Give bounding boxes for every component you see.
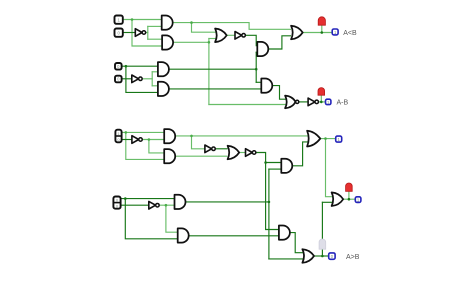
wire AND G12 output to AND G8 input 2 — [169, 88, 261, 90]
OR gate G4 — [215, 29, 227, 43]
label A>B — [346, 254, 360, 261]
wire to NOR G9 input 2 — [209, 104, 288, 106]
input pin A1 value 1 — [115, 16, 123, 24]
junction OR G20 output — [324, 137, 327, 140]
wire LED L3 stem — [348, 191, 350, 199]
wire NOT G13 vertical — [151, 72, 153, 86]
OR gate G7 — [291, 26, 303, 40]
OR gate G22 — [332, 192, 344, 206]
wire NOT G24 output to AND G23 input 2 — [160, 204, 175, 206]
wire LED L2 stem — [320, 95, 322, 102]
wire pin A1b to AND G15 input 1 — [122, 131, 164, 133]
wire branch to AND G25 input 2 — [125, 199, 177, 239]
AND gate G16 — [164, 149, 175, 163]
AND gate G11 — [158, 62, 169, 76]
wire NOT G17 output to OR G18 input 1 — [215, 148, 227, 150]
wire net A1 to AND G2 input 1 — [123, 19, 161, 21]
AND gate G21 — [281, 159, 292, 173]
wire AND G11 output — [169, 68, 256, 70]
wire branch to OR G4 input 1 — [192, 23, 218, 33]
junction net A1 — [131, 18, 134, 21]
svg-text:A-B: A-B — [337, 100, 349, 107]
OR gate G20 — [307, 131, 320, 147]
OR gate G18 — [228, 146, 240, 160]
junction A>B net — [321, 255, 324, 258]
inverter G1 — [135, 29, 145, 37]
junction A<B net — [321, 31, 324, 34]
wire NOT G14 output to AND G15 input 2 — [143, 139, 164, 141]
wire to AND G11 input 2 — [152, 71, 158, 73]
AND gate G3 — [162, 35, 173, 49]
wire pin B1 to NOT G1 — [123, 32, 135, 34]
wire OR G22 output to pin O4 — [343, 198, 355, 200]
AND gate G25 — [178, 228, 189, 242]
wire NOT G19 output down to AND G26 input 1 — [256, 153, 279, 230]
wire branch to AND G16 input 2 — [126, 132, 164, 159]
wire AND G26 output to OR G27 input 1 — [290, 233, 303, 253]
AND gate G6 — [257, 42, 268, 56]
wire to AND G12 input 1 — [152, 85, 158, 87]
wire to AND G3 input 1 — [148, 38, 162, 40]
wire AND G21 output to OR G20 input 2 — [292, 142, 309, 166]
wire OR G27 output to pin A>B — [314, 255, 328, 257]
wire LED L1 stem — [321, 25, 323, 33]
label A-B — [337, 100, 349, 107]
svg-text:A>B: A>B — [346, 254, 360, 261]
wire AND G15 output to OR G20 input 1 — [175, 135, 309, 137]
wire pin B0b to NOT G24 — [121, 204, 148, 206]
wire OR G7 output to pin A<B — [303, 32, 332, 34]
inverter G24 — [149, 201, 159, 209]
wire NOT G10 output to pin A-B — [319, 101, 325, 103]
LED L1 on — [318, 17, 325, 25]
wire NOR G9 to NOT G10 — [299, 101, 309, 103]
LED L4 off — [319, 239, 326, 249]
wire NOT G1 output vertical — [147, 26, 149, 39]
junction A-B net — [320, 101, 323, 104]
wire net A1 branch to AND G3 input 2 — [132, 20, 162, 47]
wire NOT G13 output stub — [143, 78, 153, 80]
wire vertical net G3out — [208, 39, 210, 105]
inverter G17 — [205, 145, 215, 153]
wire AND G23 output — [185, 201, 269, 203]
wire branch to AND G21 input 1 — [266, 162, 282, 164]
wire AND G8 output to NOR G9 input 1 — [272, 86, 287, 100]
wire OR G4 to NOT G5 — [226, 34, 235, 36]
wire to AND G8 input 1 — [256, 81, 261, 83]
output pin A>B — [329, 253, 335, 259]
junction pin A0 net — [125, 65, 128, 68]
junction V1 to G21 — [264, 161, 267, 164]
wire vertical G23out — [268, 169, 270, 259]
junction pin A1b net — [125, 131, 128, 134]
wire OR G20 output to pin O3 — [320, 138, 335, 140]
inverter G5 — [235, 32, 245, 40]
AND gate G8 — [261, 79, 272, 93]
OR gate G27 — [302, 249, 314, 263]
label A<B — [343, 30, 357, 37]
LED L3 on — [346, 183, 353, 191]
AND gate G15 — [164, 129, 175, 143]
wire branch to NOT G17 — [192, 136, 205, 149]
input pin B0 value 0 — [115, 76, 122, 83]
wire to OR G4 input 2 — [209, 38, 217, 40]
junction pin A0b net — [124, 197, 127, 200]
inverter G19 — [246, 149, 256, 157]
wire AND G6 output to OR G7 input 2 — [268, 36, 290, 49]
inverter G13 — [132, 75, 142, 83]
wire branch to AND G12 input 2 — [126, 66, 158, 92]
wire to AND G2 input 2 — [148, 25, 162, 27]
wire to OR G27 input 2 — [269, 258, 303, 260]
wire pin A0b to AND G23 input 1 — [121, 198, 174, 200]
junction O4 net — [348, 198, 351, 201]
output pin O4 — [355, 197, 361, 203]
input pin pair A1b/B1b — [115, 130, 121, 143]
AND gate G12 — [158, 82, 169, 96]
wire into OR G22 input 2 — [322, 201, 331, 203]
wire AND G25 output to AND G26 input 2 — [189, 235, 279, 237]
AND gate G26 — [279, 226, 290, 240]
junction NOT G14 output — [148, 138, 151, 141]
wire AND G16 output to OR G18 input 2 — [175, 155, 227, 157]
junction NOT G24 output — [165, 204, 168, 207]
wire to AND G6 input 2 — [256, 51, 257, 53]
wire pin B0 to NOT G13 — [122, 78, 132, 80]
LED L2 on — [318, 88, 325, 96]
junction AND G15 output — [190, 135, 193, 138]
wire vertical G11out — [255, 52, 257, 82]
wire AND G2 output to OR G7 input 1 — [173, 23, 291, 30]
junction AND G23 output — [268, 201, 271, 204]
input pin pair A0b/B0b — [113, 197, 120, 209]
wire branch to AND G16 input 1 — [149, 140, 164, 153]
NOR gate G9 — [285, 96, 299, 109]
wire AND G3 output — [173, 41, 209, 43]
junction AND G2 output — [190, 21, 193, 24]
wire to AND G21 input 2 — [269, 168, 281, 170]
wire NOT G1 output stub — [146, 32, 148, 34]
wire branch to OR G22 input 1 — [326, 139, 332, 197]
inverter G14 — [132, 136, 142, 144]
svg-text:A<B: A<B — [343, 30, 357, 37]
wire OR G18 output to NOT G19 — [237, 152, 246, 154]
wire A>B branch up to OR G22 input 2 — [321, 202, 323, 256]
inverter G10 — [308, 98, 318, 106]
wire branch to AND G25 input 1 — [166, 205, 178, 232]
AND gate G23 — [175, 195, 186, 209]
junction AND G3 output — [208, 41, 211, 44]
output pin A-B — [326, 99, 331, 105]
wire pin B1b to NOT G14 — [122, 139, 132, 141]
wire pin A0 to AND G11 input 1 — [122, 65, 158, 67]
output pin A<B — [332, 29, 338, 35]
AND gate G2 — [162, 16, 173, 30]
output pin O3 — [336, 136, 342, 142]
input pin B1 value 0 — [115, 29, 123, 37]
input pin A0 value 0 — [115, 63, 122, 70]
wire NOT G5 output to AND G6 input 1 — [245, 35, 257, 45]
junction AND G11 output — [255, 68, 258, 71]
